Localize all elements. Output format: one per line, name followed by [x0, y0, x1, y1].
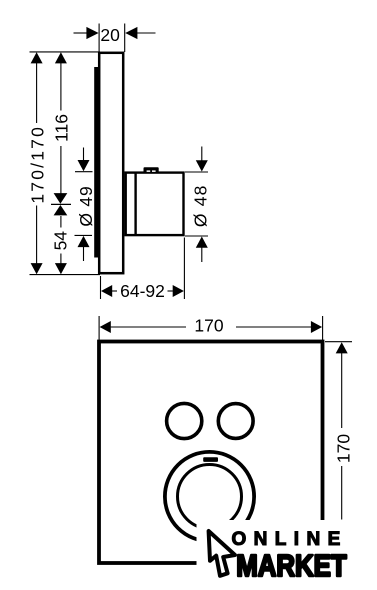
front view right select button	[218, 404, 253, 439]
extension line: plate bottom to left dims	[30, 274, 101, 276]
wall flange strip (side view)	[94, 67, 99, 258]
dimension 170 right: vertical line with top arrow	[336, 342, 348, 353]
dimension 54: top arrow (lower half of bowtie)	[54, 205, 68, 215]
dimension diameter 49: top arrow	[83, 148, 85, 162]
svg-text:170: 170	[334, 434, 354, 463]
dimension 170 top: right extension line	[322, 316, 324, 340]
svg-text:Ø 48: Ø 48	[191, 184, 211, 227]
safety stop button tab (side view)	[144, 167, 159, 172]
svg-text:MARKET: MARKET	[236, 548, 347, 583]
dimension diameter 48: top arrow	[201, 147, 203, 162]
front view left select button	[167, 403, 202, 438]
bowtie center tick	[51, 203, 71, 205]
front view square plate	[99, 342, 323, 564]
dimension diameter 49: bottom tick	[75, 234, 93, 236]
dimension 116: top arrow	[55, 52, 67, 63]
dimension 20: left arrow	[74, 32, 89, 34]
escutcheon plate (side view)	[99, 53, 123, 273]
svg-text:20: 20	[100, 25, 120, 45]
svg-text:116: 116	[52, 114, 72, 142]
extension line: plate top to left dims	[30, 51, 101, 53]
dimension 170/170: top arrow	[31, 52, 43, 63]
dimension diameter 48: bottom arrow	[201, 247, 203, 263]
dimension 116: bottom arrow (upper half of bowtie)	[54, 193, 68, 204]
watermark white panel	[197, 520, 377, 590]
sleeve/handle divider line	[134, 173, 136, 236]
dimension 170 right: top extension line	[325, 341, 352, 343]
front view thermostat knob outer ring	[165, 452, 254, 541]
dimension 64-92: right arrow	[173, 285, 184, 297]
dimension 20: right arrow	[136, 32, 156, 34]
dimension 170/170: bottom arrow	[31, 263, 43, 274]
dimension diameter 48: bottom tick	[185, 235, 208, 237]
dimension 64-92: right extension line	[183, 238, 185, 300]
dimension 64-92: left arrow	[101, 285, 112, 297]
dimension 64-92: left extension line	[100, 276, 102, 299]
svg-text:170: 170	[194, 316, 223, 336]
watermark cursor icon	[209, 531, 235, 576]
dimension 54: bottom arrow	[55, 263, 67, 274]
dimension 20: right extension line	[124, 24, 126, 53]
front view thermostat knob inner circle	[178, 465, 242, 529]
dimension diameter 48: top tick	[185, 171, 208, 173]
dimension 54: vertical line	[60, 216, 62, 228]
dimension diameter 49: top tick	[75, 171, 93, 173]
dimension 170 top: left extension line	[98, 316, 100, 340]
dimension 170 top: right arrow	[311, 321, 322, 333]
dimension 170/170: vertical line	[36, 62, 38, 123]
svg-text:64-92: 64-92	[120, 281, 165, 301]
svg-text:Ø 49: Ø 49	[76, 186, 96, 227]
dimension 20: left extension line	[98, 24, 100, 53]
svg-text:54: 54	[51, 231, 71, 251]
svg-text:170/170: 170/170	[28, 125, 48, 204]
front view knob grip marker	[203, 457, 218, 462]
dimension diameter 49: bottom arrow	[83, 247, 85, 262]
dimension 170 top: left arrow	[100, 321, 111, 333]
handle sleeve + knob body (side view)	[126, 173, 184, 236]
dimension 116: vertical line	[60, 62, 62, 111]
svg-text:ONLINE: ONLINE	[232, 529, 348, 550]
